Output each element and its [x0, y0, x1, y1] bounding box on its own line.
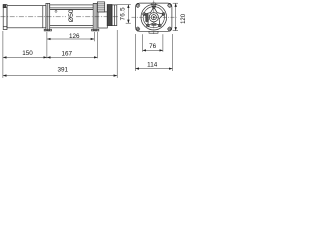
star point hole left-lower — [146, 24, 149, 27]
top tie bar — [50, 5, 93, 8]
svg-text:76: 76 — [149, 43, 157, 50]
clutch knob with ribs — [97, 2, 104, 12]
corner lug top-left — [135, 3, 140, 8]
clutch face inner circle — [143, 7, 164, 28]
svg-text:150: 150 — [22, 50, 33, 57]
dimension 76.5 — [117, 5, 131, 24]
dimension 120 — [173, 3, 178, 31]
center hub circles — [149, 13, 158, 22]
front view vertical centerline — [153, 1, 155, 35]
motor body — [7, 6, 46, 28]
bottom shading bar — [151, 24, 156, 26]
front view horizontal centerline — [132, 16, 177, 18]
svg-text:76.5: 76.5 — [119, 7, 126, 21]
corner lug bottom-left — [135, 27, 140, 32]
star point hole right-lower — [158, 24, 161, 27]
svg-text:126: 126 — [69, 33, 80, 40]
svg-text:114: 114 — [147, 61, 158, 68]
front view housing box — [136, 3, 172, 31]
dimension 126 — [47, 32, 94, 58]
svg-text:391: 391 — [58, 66, 69, 73]
right drum flange — [92, 3, 99, 31]
clutch face outer circle — [141, 4, 167, 30]
left drum flange — [44, 3, 51, 31]
svg-text:167: 167 — [62, 50, 73, 57]
star point hole left-upper — [143, 13, 146, 16]
svg-text:120: 120 — [181, 13, 187, 24]
dimension 76 — [143, 34, 163, 52]
motor end cap — [3, 5, 7, 30]
star pattern — [144, 7, 163, 25]
clutch lever blob — [145, 13, 148, 22]
dimension 167 — [47, 32, 97, 58]
dimension 150 — [3, 31, 47, 78]
gearbox housing — [98, 5, 117, 29]
dimension 114 — [135, 34, 172, 71]
corner lug top-right — [167, 3, 172, 8]
svg-text:Ø50: Ø50 — [68, 9, 75, 22]
top cap detail — [152, 3, 156, 7]
wire: drum axis centerline — [1, 16, 67, 18]
bottom boss tab — [149, 31, 158, 33]
star point hole right-upper — [162, 13, 165, 16]
corner lug bottom-right — [167, 27, 172, 32]
dimension 391 — [3, 30, 117, 78]
drum — [50, 10, 93, 28]
star point hole top — [152, 6, 155, 9]
